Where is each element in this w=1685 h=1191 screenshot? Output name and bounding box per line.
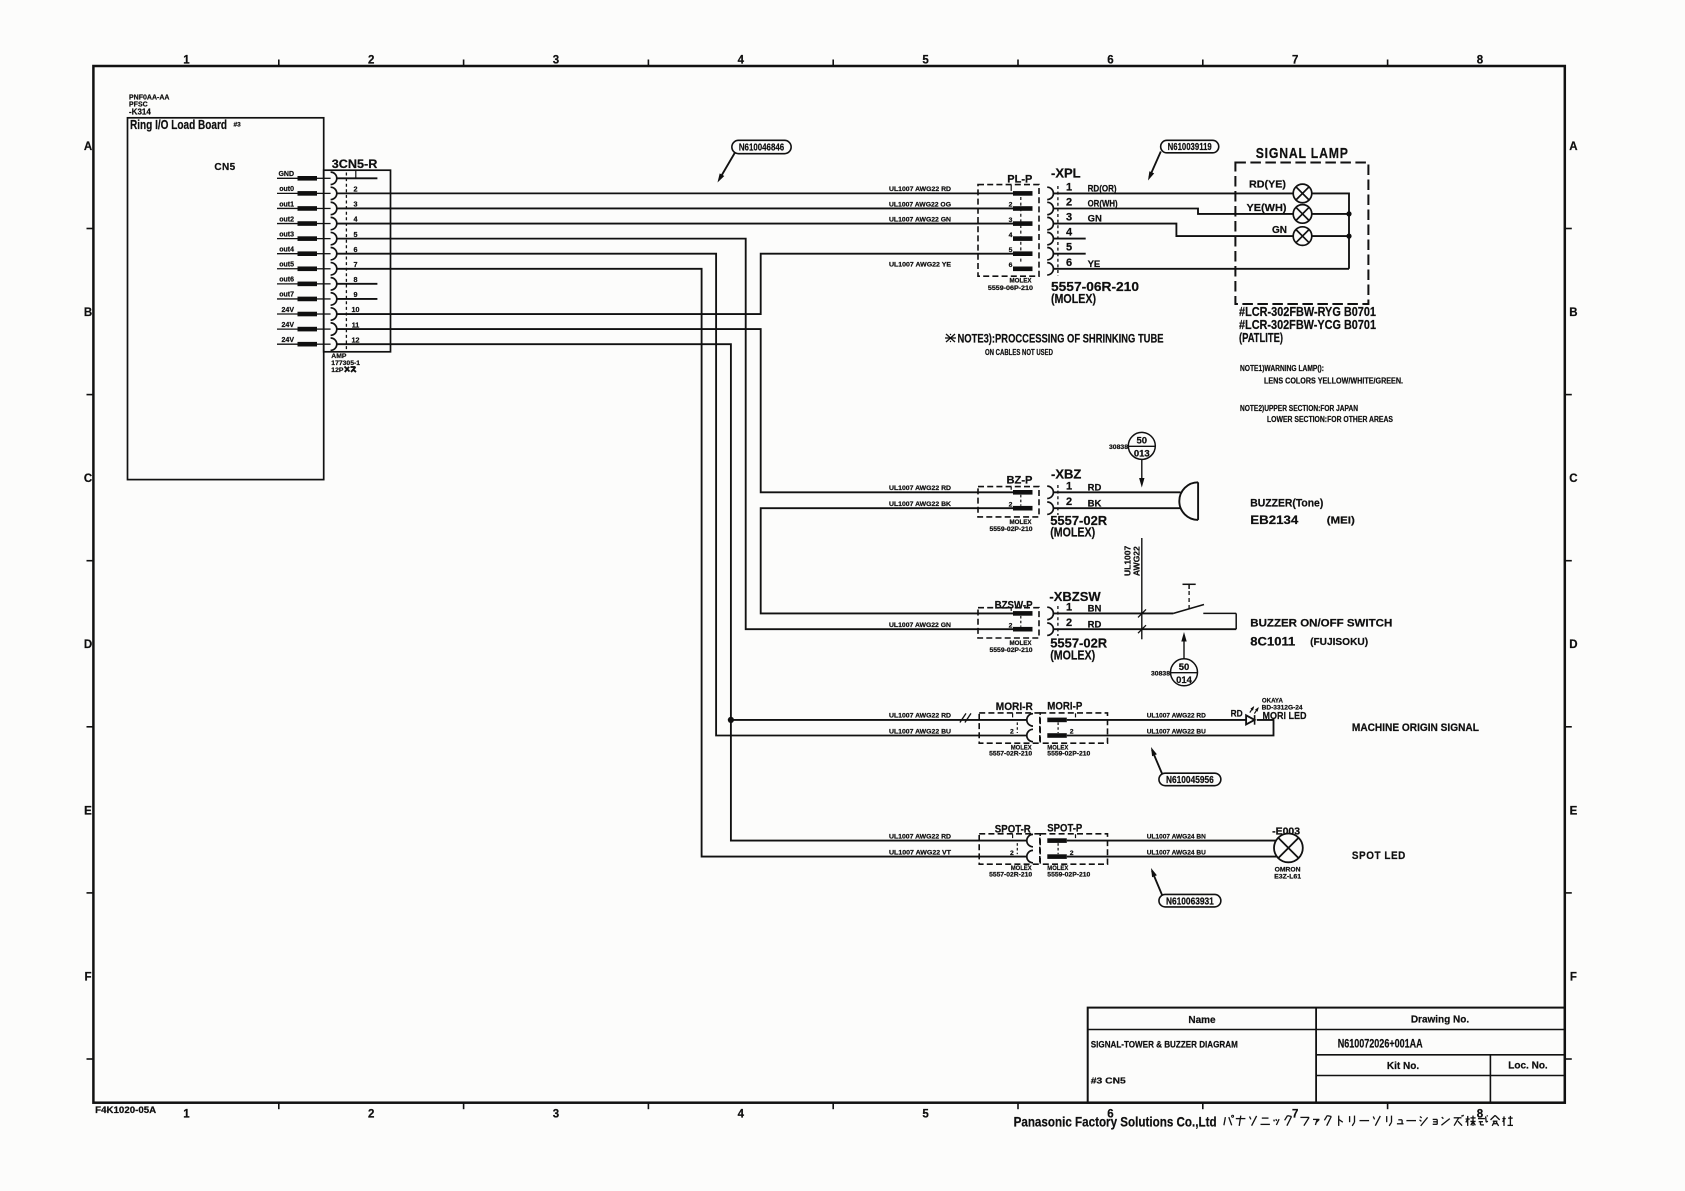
svg-text:E3Z-L61: E3Z-L61 [1274,874,1301,881]
svg-text:2: 2 [1010,850,1014,857]
svg-text:6: 6 [1009,262,1013,269]
svg-text:UL1007 AWG22 GN: UL1007 AWG22 GN [889,216,951,223]
svg-text:UL1007 AWG22 OG: UL1007 AWG22 OG [889,201,951,208]
svg-text:N610039119: N610039119 [1168,142,1212,153]
cable line UL1007 AWG22 [1123,538,1147,639]
junction dot lamp GN [1346,234,1351,239]
wire pin4 GN to PL-P pin3 [337,223,1013,225]
svg-text:C: C [84,473,92,485]
svg-text:2: 2 [1066,496,1072,508]
svg-text:UL1007 AWG24 BN: UL1007 AWG24 BN [1147,833,1206,840]
svg-text:12: 12 [352,335,360,344]
LED MORI (OKAYA BD-3312G-24) [1246,706,1259,725]
title block [1088,1008,1565,1103]
lamp YE(WH) [1247,202,1287,214]
svg-text:UL1007 AWG22 BK: UL1007 AWG22 BK [889,501,951,508]
svg-text:5: 5 [1009,247,1013,254]
note3 shrinking tube [945,332,1164,358]
part label N610046846 [718,140,792,182]
svg-text:AMP: AMP [331,353,347,360]
wire pin12 RD to MORI-R pin1 and SPOT-R pin1 [337,344,1027,840]
svg-text:RD(YE): RD(YE) [1249,178,1286,190]
svg-text:UL1007 AWG22 BU: UL1007 AWG22 BU [889,728,951,735]
wire -XPL pin1 RD(OR) to lamp RD [1053,192,1293,194]
svg-text:EB2134: EB2134 [1250,513,1298,527]
svg-text:4: 4 [738,1109,745,1121]
svg-text:A: A [1569,141,1577,153]
svg-text:Drawing No.: Drawing No. [1411,1015,1470,1026]
wire 3CN5-R pin8 stub [337,283,378,285]
svg-text:5559-02P-210: 5559-02P-210 [1047,750,1090,757]
svg-text:B: B [1569,307,1577,319]
svg-text:F: F [84,971,91,983]
svg-text:-XBZSW: -XBZSW [1049,589,1101,604]
svg-text:A: A [84,141,92,153]
buzzer EB2134 (tone) [1179,482,1198,520]
svg-text:6: 6 [1066,257,1072,269]
svg-text:2: 2 [354,185,358,194]
svg-text:4: 4 [1066,227,1073,239]
svg-text:30838: 30838 [1109,444,1128,451]
svg-text:E: E [1570,805,1578,817]
svg-text:12P: 12P [331,367,344,374]
svg-text:2: 2 [1066,617,1072,629]
connector PL-P (plug, MOLEX 5559-06P-210) [978,174,1039,292]
svg-text:out2: out2 [279,216,294,223]
svg-text:CN5: CN5 [214,162,235,173]
wire pin3 OG to PL-P pin2 [337,207,1013,209]
part label N610063931 [1151,868,1221,907]
svg-text:UL1007 AWG22 VT: UL1007 AWG22 VT [889,849,952,856]
svg-text:50: 50 [1179,662,1190,673]
svg-text:BZ-P: BZ-P [1007,475,1033,487]
svg-text:MORI-P: MORI-P [1047,701,1082,713]
svg-text:1: 1 [183,55,190,67]
svg-text:-K314: -K314 [129,108,151,117]
svg-text:C: C [1569,473,1577,485]
svg-text:out7: out7 [279,292,294,299]
svg-text:3: 3 [553,1109,559,1121]
wire SPOT-P pin2 BU to spot LED [1067,856,1277,858]
svg-text:BUZZER(Tone): BUZZER(Tone) [1250,498,1323,510]
svg-text:8: 8 [354,275,358,284]
svg-text:7: 7 [1292,1109,1298,1121]
svg-text:(MOLEX): (MOLEX) [1051,291,1096,306]
svg-text:2: 2 [1009,202,1013,209]
wire -XBZSW pin1 BN to switch [1053,612,1173,614]
svg-text:SIGNAL-TOWER & BUZZER DIAGRAM: SIGNAL-TOWER & BUZZER DIAGRAM [1091,1040,1238,1050]
wire BZ-P pin2 BK loop to BZSW-P pin1 [761,508,1013,613]
lamp GN [1272,224,1287,236]
svg-text:6: 6 [354,245,358,254]
cable slash marks on MORI wire1 [960,713,971,722]
svg-text:30838: 30838 [1151,670,1170,677]
wire MORI-P pin1 to LED [1067,719,1246,721]
svg-text:out4: out4 [279,247,294,254]
svg-text:NOTE3):PROCCESSING OF SHRINKIN: NOTE3):PROCCESSING OF SHRINKING TUBE [958,332,1164,346]
svg-text:2: 2 [1066,197,1072,209]
wire -XBZSW pin2 RD to switch return [1053,628,1236,630]
svg-text:24V: 24V [282,307,295,314]
signal lamp unit PATLITE LCR-302FBW (dashed enclosure) [1235,145,1368,304]
svg-text:UL1007 AWG22 RD: UL1007 AWG22 RD [889,186,951,193]
svg-text:7: 7 [354,260,358,269]
lamp RD(YE) [1249,178,1286,190]
svg-text:out6: out6 [279,277,294,284]
svg-text:D: D [1569,639,1577,651]
svg-text:014: 014 [1176,675,1193,686]
svg-text:D: D [84,639,92,651]
svg-text:7: 7 [1292,55,1298,67]
svg-text:E: E [84,805,92,817]
svg-text:UL1007 AWG22 RD: UL1007 AWG22 RD [889,485,951,492]
wire 3CN5-R pin1 stub [337,177,378,179]
svg-text:MORI LED: MORI LED [1263,710,1307,722]
svg-text:2: 2 [1009,622,1013,629]
svg-text:Kit No.: Kit No. [1387,1061,1419,1072]
svg-text:24V: 24V [282,337,295,344]
svg-text:out5: out5 [279,262,294,269]
svg-text:out0: out0 [279,186,294,193]
svg-text:5557-02R-210: 5557-02R-210 [989,750,1032,757]
wire pin10 YE to PL-P pin6 [337,254,1013,314]
svg-text:2: 2 [368,1109,374,1121]
svg-text:OKAYA: OKAYA [1262,698,1283,705]
wire pin2 RD to PL-P pin1 [337,192,1013,194]
svg-text:Loc. No.: Loc. No. [1508,1061,1548,1072]
svg-text:3: 3 [1066,212,1072,224]
svg-text:3: 3 [553,55,559,67]
svg-text:5557-02R-210: 5557-02R-210 [989,871,1032,878]
wire -XPL pin3 GN to lamp GN [1053,224,1293,237]
svg-text:5559-02P-210: 5559-02P-210 [990,647,1033,654]
svg-text:UL1007 AWG22 RD: UL1007 AWG22 RD [1147,713,1206,720]
svg-text:SPOT-P: SPOT-P [1047,823,1082,835]
svg-text:#3 CN5: #3 CN5 [1091,1076,1126,1086]
svg-text:5559-02P-210: 5559-02P-210 [990,526,1033,533]
svg-text:ON CABLES NOT USED: ON CABLES NOT USED [985,348,1053,357]
connector CN5 (board side plug, 12P) [214,162,330,346]
svg-text:1: 1 [1066,480,1072,492]
wire -XPL pin2 OR(WH) to lamp YE [1053,209,1293,214]
wire -XBZ pin2 BK to buzzer [1053,507,1180,509]
svg-text:2: 2 [368,55,374,67]
svg-text:NOTE2)UPPER SECTION:FOR JAPAN: NOTE2)UPPER SECTION:FOR JAPAN [1240,404,1358,413]
svg-text:4: 4 [738,55,745,67]
svg-text:(FUJISOKU): (FUJISOKU) [1310,637,1368,648]
svg-text:UL1007 AWG22 RD: UL1007 AWG22 RD [889,713,951,720]
svg-text:24V: 24V [282,322,295,329]
svg-text:2: 2 [1009,501,1013,508]
svg-text:N610072026+001AA: N610072026+001AA [1338,1039,1423,1051]
connector MORI-R (receptacle, MOLEX 5557-02R-210) [979,701,1040,757]
reference circle 50/014 [1151,632,1198,686]
svg-text:OMRON: OMRON [1275,866,1301,873]
svg-text:11: 11 [352,320,360,329]
svg-text:LENS COLORS YELLOW/WHITE/GREEN: LENS COLORS YELLOW/WHITE/GREEN. [1264,377,1403,386]
svg-text:(PATLITE): (PATLITE) [1239,331,1283,345]
wire -XBZ pin1 RD to buzzer [1053,491,1180,493]
svg-text:UL1007 AWG22 BU: UL1007 AWG22 BU [1147,728,1206,735]
wire MORI-P pin2 LED return [1067,720,1274,736]
connector MORI-P (plug, MOLEX 5559-02P-210) [1040,701,1107,758]
label 12P female (12Pメス) [331,367,356,375]
spot LED E003 (OMRON E3Z-L61) [1274,834,1303,863]
svg-text:YE(WH): YE(WH) [1247,202,1287,214]
svg-text:MORI-R: MORI-R [996,701,1033,713]
wire pin6 BU to MORI-R pin2 [337,254,1027,736]
connector -XPL (receptacle, MOLEX 5557-06R-210) [1047,166,1139,306]
svg-text:1: 1 [183,1109,190,1121]
svg-text:5: 5 [922,1109,929,1121]
svg-text:4: 4 [354,215,358,224]
svg-text:5559-02P-210: 5559-02P-210 [1047,871,1090,878]
svg-text:1: 1 [1066,601,1072,613]
connector -XBZSW (receptacle, MOLEX 5557-02R) [1047,589,1108,662]
svg-text:F: F [1570,971,1577,983]
svg-text:BUZZER ON/OFF SWITCH: BUZZER ON/OFF SWITCH [1250,617,1392,629]
svg-text:RD: RD [1231,709,1243,719]
svg-text:2: 2 [1010,729,1014,736]
wire pin7 VT to SPOT-R pin2 [337,269,1027,857]
svg-text:#LCR-302FBW-RYG B0701: #LCR-302FBW-RYG B0701 [1239,305,1376,319]
connector -XBZ (receptacle, MOLEX 5557-02R) [1047,467,1108,540]
svg-text:UL1007 AWG22 YE: UL1007 AWG22 YE [889,262,951,269]
part label N610039119 [1148,140,1219,180]
board -K314 Ring I/O Load Board [128,95,324,480]
svg-text:5: 5 [1066,242,1072,254]
svg-text:AWG22: AWG22 [1132,546,1142,576]
svg-text:NOTE1)WARNING LAMP():: NOTE1)WARNING LAMP(): [1240,364,1324,373]
svg-text:5559-06P-210: 5559-06P-210 [988,285,1033,292]
junction dot pin12/MORI [728,717,734,723]
wire -XPL pin5 stub [1053,253,1085,255]
svg-text:PNF0AA-AA: PNF0AA-AA [129,95,169,102]
svg-text:10: 10 [352,305,360,314]
title block texts [1091,1015,1548,1086]
svg-text:MOLEX: MOLEX [1010,277,1033,284]
connector 3CN5-R (AMP 177305-1 12P receptacle) [324,159,391,367]
svg-text:out3: out3 [279,231,294,238]
svg-text:1: 1 [1066,181,1072,193]
svg-text:177305-1: 177305-1 [331,360,360,367]
part label N610045956 [1151,747,1221,786]
wire MORI-R pin1 branch [731,719,1027,721]
svg-text:out1: out1 [279,201,294,208]
svg-text:N610046846: N610046846 [739,143,785,154]
svg-text:8: 8 [1477,55,1484,67]
svg-text:#LCR-302FBW-YCG B0701: #LCR-302FBW-YCG B0701 [1239,318,1376,332]
wire SPOT-P pin1 BN to spot LED [1067,840,1276,842]
svg-text:013: 013 [1134,448,1150,459]
svg-text:8C1011: 8C1011 [1250,635,1295,649]
connector BZ-P (plug, MOLEX 5559-02P-210) [978,475,1039,533]
svg-text:Ring I/O Load Board: Ring I/O Load Board [130,117,227,132]
svg-text:N610063931: N610063931 [1166,896,1214,907]
connector SPOT-R (receptacle, MOLEX 5557-02R-210) [979,824,1040,879]
svg-text:MACHINE ORIGIN SIGNAL: MACHINE ORIGIN SIGNAL [1352,722,1479,734]
svg-text:6: 6 [1107,55,1113,67]
connector SPOT-P (plug, MOLEX 5559-02P-210) [1040,823,1107,879]
svg-text:9: 9 [354,290,358,299]
note2 sections [1240,404,1394,424]
svg-text:SIGNAL LAMP: SIGNAL LAMP [1256,145,1349,162]
svg-text:GND: GND [278,171,294,178]
svg-text:BZSW-P: BZSW-P [995,600,1033,612]
svg-text:3: 3 [354,200,358,209]
svg-text:4: 4 [1009,232,1013,239]
wire lamp common vertical [1312,193,1349,268]
svg-text:Name: Name [1188,1015,1216,1026]
svg-text:-XPL: -XPL [1051,166,1081,181]
svg-text:SPOT LED: SPOT LED [1352,850,1406,862]
junction dot lamp YE [1346,211,1351,216]
svg-text:GN: GN [1272,224,1287,236]
svg-text:F4K1020-05A: F4K1020-05A [95,1105,156,1116]
note1 warning lamp [1240,364,1403,386]
svg-text:5: 5 [354,230,358,239]
svg-text:5: 5 [922,55,929,67]
wire -XPL pin6 YE common return [1053,268,1349,270]
svg-text:N610045956: N610045956 [1166,775,1214,786]
wire -XPL pin4 stub [1053,238,1085,240]
connector BZSW-P (plug, MOLEX 5559-02P-210) [978,600,1039,654]
svg-text:50: 50 [1137,436,1148,447]
wire 3CN5-R pin9 stub [337,298,378,300]
svg-text:(MOLEX): (MOLEX) [1050,525,1095,540]
svg-text:Panasonic Factory Solutions Co: Panasonic Factory Solutions Co.,Ltd [1014,1115,1217,1130]
reference circle 50/013 [1109,432,1155,487]
svg-text:(MOLEX): (MOLEX) [1050,647,1095,662]
wire pin11 RD to BZ-P pin1 [337,329,1013,492]
svg-text:UL1007 AWG22 RD: UL1007 AWG22 RD [889,833,951,840]
svg-text:UL1007 AWG22 GN: UL1007 AWG22 GN [889,622,951,629]
svg-text:(MEI): (MEI) [1327,515,1355,526]
svg-text:UL1007 AWG24 BU: UL1007 AWG24 BU [1147,849,1206,856]
svg-text:LOWER SECTION:FOR OTHER AREAS: LOWER SECTION:FOR OTHER AREAS [1267,415,1394,424]
svg-text:#3: #3 [234,122,242,129]
svg-text:B: B [84,307,92,319]
wire pin5 GN to BZSW-P pin2 [337,239,1013,630]
svg-text:3: 3 [1009,217,1013,224]
switch 8C1011 buzzer on/off [1173,584,1236,629]
